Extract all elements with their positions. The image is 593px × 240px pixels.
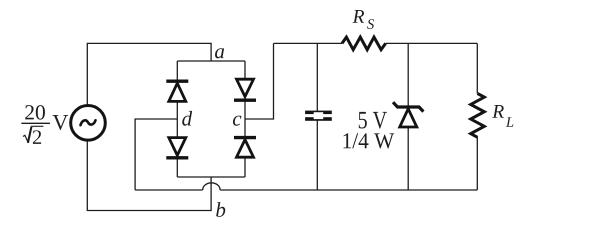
wire: bottom rail left of hop	[135, 189, 203, 191]
label 2 under radical	[33, 130, 41, 144]
node d label	[182, 111, 192, 126]
diode D4 bridge bottom-right (cathode bar up)	[234, 138, 256, 158]
zener diode DZ triangle	[400, 109, 417, 127]
AC source tilde	[81, 120, 96, 125]
wire: source bottom return to node b	[87, 141, 211, 210]
label 1/4 W	[343, 133, 394, 148]
wire: top rail from R_S to right edge	[386, 42, 478, 44]
label V of source	[53, 115, 69, 130]
wire: source top to node a	[87, 43, 211, 104]
diode D3 bridge top-right (cathode bar down)	[234, 79, 256, 100]
node b label	[216, 202, 225, 217]
node c label	[233, 116, 241, 126]
diode D2 bridge bottom-left (cathode bar down)	[166, 138, 188, 158]
fraction bar	[21, 122, 50, 124]
wire: bottom rail right of hop	[220, 189, 477, 191]
wire: right edge above R_L	[476, 43, 478, 93]
resistor R_L zigzag	[471, 94, 485, 138]
radical sign of sqrt 2	[23, 135, 28, 143]
wire: right edge below R_L	[476, 137, 478, 190]
resistor R_S zigzag	[342, 37, 386, 50]
node a label	[215, 48, 224, 58]
AC source circle	[71, 106, 106, 141]
zener diode DZ cathode bar with bent ends	[393, 102, 423, 111]
wire: node d stub and down	[135, 119, 177, 190]
label 20 numerator	[25, 105, 45, 120]
wire hop over b vertical	[203, 183, 220, 190]
label 5 V	[359, 112, 387, 129]
capacitor C plates	[305, 111, 332, 121]
wire: node c stub and up to top rail	[245, 43, 274, 119]
bridge left branch wire	[176, 61, 178, 177]
label R_S	[353, 10, 365, 23]
diode D1 bridge top-left (cathode bar up)	[166, 81, 188, 101]
wire: capacitor branch	[316, 43, 318, 190]
wire: zener branch	[407, 43, 409, 190]
wire: top rail from c to R_S	[274, 42, 343, 44]
label R_L	[492, 105, 504, 118]
bridge bottom edge wire	[177, 176, 245, 178]
bridge right branch wire	[244, 61, 246, 177]
bridge top edge wire	[177, 60, 245, 62]
